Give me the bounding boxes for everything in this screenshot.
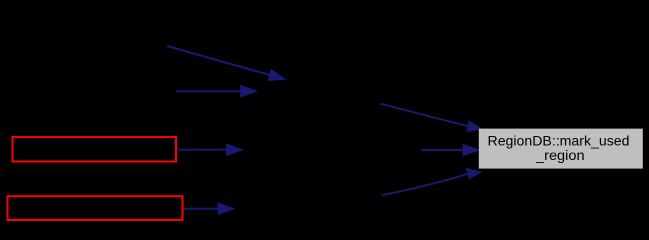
node: target function box (grey) (479, 129, 643, 169)
node: truncated caller box R2 (red outline) (8, 196, 183, 220)
wire: edge from hidden middle node to target (upper diagonal) (380, 104, 481, 132)
wire: edge from hidden middle node to target (horizontal) (421, 144, 479, 155)
wire: edge from hidden caller node 1 to hidden middle node (diagonal) (167, 46, 285, 81)
svg-text:RegionDB::mark_used: RegionDB::mark_used (488, 132, 630, 148)
wire: edge from red box R1 to hidden middle node (179, 144, 243, 155)
wire: edge from red box R2 to hidden middle node (184, 203, 235, 214)
wire: edge from hidden middle node to target (lower diagonal) (382, 169, 482, 196)
wire: edge from hidden caller node 2 to hidden middle node (horizontal) (176, 86, 257, 97)
svg-text:_region: _region (535, 147, 585, 163)
node: truncated caller box R1 (red outline) (13, 137, 177, 162)
